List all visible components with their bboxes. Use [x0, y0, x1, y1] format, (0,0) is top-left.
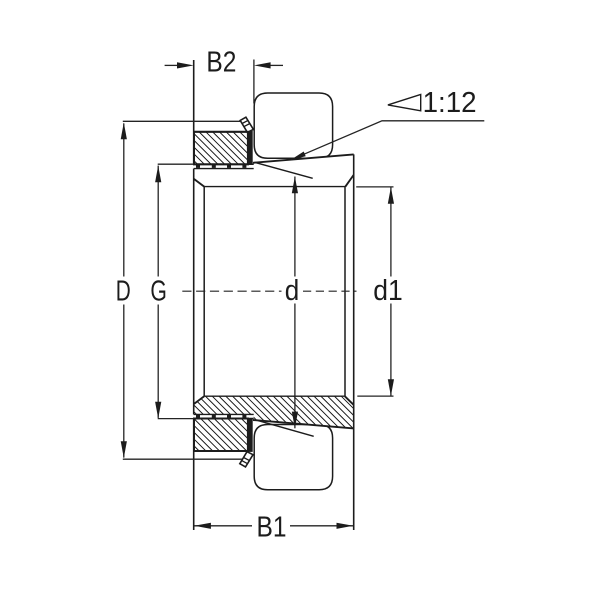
G bottom arrow — [155, 402, 161, 419]
svg-text:d1: d1 — [373, 275, 403, 307]
bore left edge — [203, 187, 205, 397]
D extension bottom — [123, 458, 242, 460]
sleeve taper line bottom — [253, 420, 354, 428]
dimension graphics — [123, 60, 485, 526]
centerline dashed — [182, 290, 281, 292]
bore right edge — [344, 187, 346, 397]
slit line top — [255, 162, 313, 178]
chamfer bottom-right — [345, 396, 354, 405]
B1 dimension line — [194, 525, 252, 527]
washer W1 top black bar — [248, 131, 253, 164]
svg-text:d: d — [285, 275, 300, 307]
sleeve right face line — [353, 154, 355, 530]
svg-text:1:12: 1:12 — [423, 87, 477, 119]
G top arrow — [155, 166, 161, 183]
thread ticks bottom — [196, 415, 246, 418]
rounded profile bottom — [254, 425, 332, 490]
thread root line top — [194, 168, 254, 170]
D bottom arrow — [121, 441, 127, 458]
D top arrow — [121, 123, 127, 140]
washer tab top — [240, 117, 253, 132]
flange hatch bottom region — [194, 396, 354, 428]
B2 right extension line — [253, 60, 255, 104]
arrowheads — [121, 62, 394, 529]
svg-text:B1: B1 — [257, 512, 287, 544]
d top arrow — [292, 177, 298, 194]
G extension bottom — [158, 418, 194, 420]
nut N1 bottom hatched block — [194, 419, 248, 452]
B2 dimension arrows — [165, 64, 178, 66]
B1 right arrow — [337, 523, 354, 529]
d1 extension bottom — [357, 395, 393, 397]
slit line bottom — [258, 421, 314, 437]
chamfer top-left — [194, 179, 205, 187]
taper leader arrow — [291, 152, 306, 160]
bore top line — [204, 186, 345, 188]
thread ticks top — [196, 165, 246, 168]
thread root line bottom — [194, 413, 254, 415]
nut outline top — [194, 132, 248, 165]
D extension top — [123, 120, 240, 122]
washer W1 bottom black bar — [248, 419, 253, 452]
nut outline bottom — [194, 419, 248, 452]
thread crest line bottom — [194, 418, 254, 420]
d1 top arrow — [388, 187, 394, 204]
svg-text:D: D — [116, 276, 131, 308]
svg-text:B2: B2 — [206, 46, 236, 78]
d1 dimension line — [390, 187, 392, 276]
chamfer top-right — [345, 175, 353, 187]
taper leader line — [291, 121, 484, 160]
chamfer bottom-left — [194, 396, 205, 404]
G extension top — [158, 163, 194, 165]
bore bottom line — [204, 395, 345, 397]
d1 bottom arrow — [388, 379, 394, 396]
d1 extension top — [356, 186, 393, 188]
d bottom arrow — [292, 412, 298, 429]
B1 left arrow — [194, 523, 211, 529]
sleeve taper line top — [253, 154, 354, 162]
svg-text:G: G — [150, 276, 167, 308]
taper triangle symbol — [388, 95, 421, 111]
rounded profile top — [254, 93, 332, 158]
washer tab bottom — [240, 452, 253, 467]
B2 right arrow — [254, 62, 271, 68]
B2 left arrow — [177, 62, 194, 68]
D dimension line — [123, 123, 125, 276]
G dimension line — [157, 166, 159, 277]
nut N1 top hatched block — [194, 132, 248, 165]
d dimension line — [294, 177, 296, 277]
sleeve left face line — [193, 60, 195, 164]
thread crest line top — [194, 163, 254, 165]
